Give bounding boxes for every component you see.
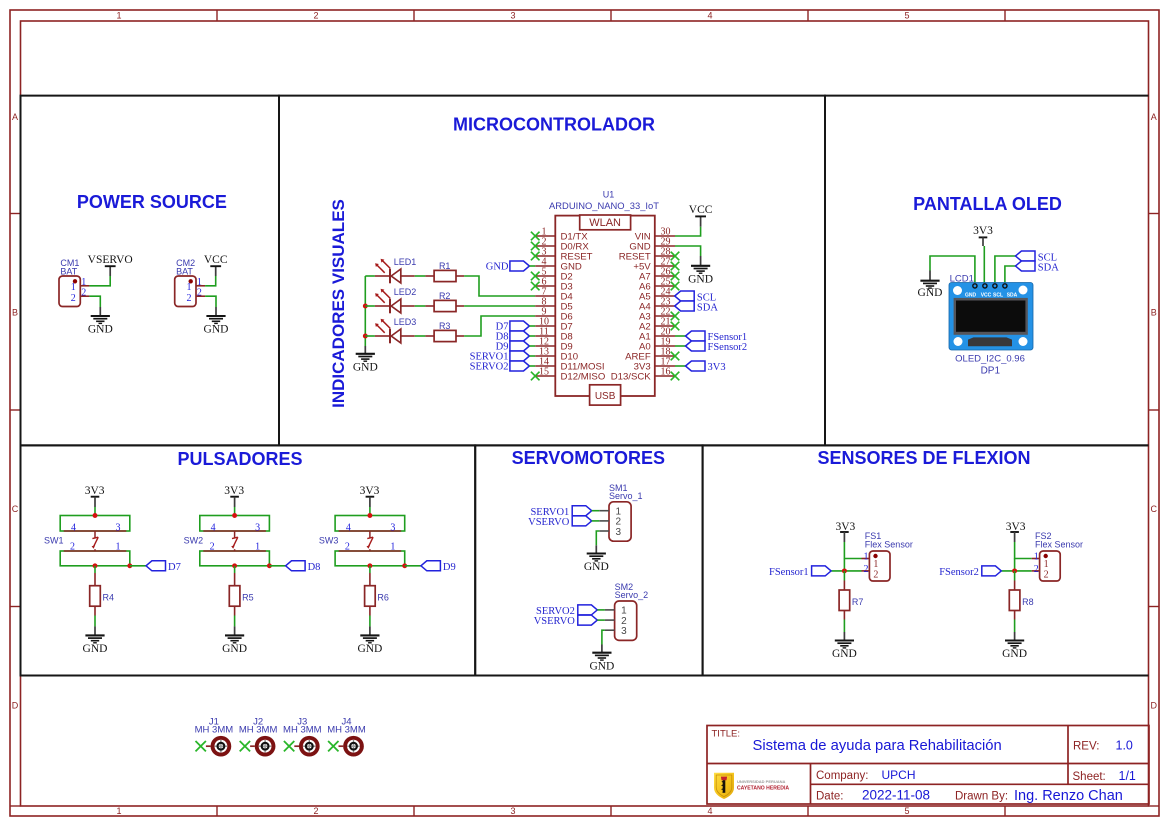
svg-text:Ing. Renzo Chan: Ing. Renzo Chan bbox=[1014, 788, 1123, 804]
svg-text:VSERVO: VSERVO bbox=[88, 254, 133, 266]
net flag FSensor2 bbox=[982, 566, 1002, 576]
net flag SERVO1 pin 13 bbox=[510, 351, 530, 361]
wire bottom loop SW2 bbox=[200, 551, 270, 566]
svg-text:4: 4 bbox=[71, 522, 76, 533]
svg-text:D8: D8 bbox=[308, 562, 321, 573]
pin 25 A6 bbox=[655, 285, 675, 287]
svg-text:FSensor1: FSensor1 bbox=[769, 567, 809, 578]
pin 29 GND bbox=[655, 245, 675, 247]
LED LED1 bbox=[365, 275, 375, 277]
title block row line 2 bbox=[811, 783, 1150, 785]
svg-text:DP1: DP1 bbox=[981, 365, 1001, 376]
svg-text:MH 3MM: MH 3MM bbox=[239, 725, 278, 736]
switch SW3 bbox=[339, 530, 402, 532]
pin 27 +5V bbox=[655, 265, 675, 267]
svg-text:B: B bbox=[12, 308, 18, 318]
svg-text:2022-11-08: 2022-11-08 bbox=[862, 788, 930, 803]
svg-text:D7: D7 bbox=[168, 562, 181, 573]
ground OLED bbox=[929, 271, 931, 281]
pin 4 GND bbox=[535, 265, 555, 267]
pin 3 RESET bbox=[535, 255, 555, 257]
svg-text:OLED_I2C_0.96: OLED_I2C_0.96 bbox=[955, 353, 1025, 364]
svg-text:UPCH: UPCH bbox=[882, 768, 916, 782]
svg-text:1: 1 bbox=[1044, 559, 1049, 570]
LED LED3 bbox=[365, 335, 375, 337]
svg-text:FSensor2: FSensor2 bbox=[939, 567, 979, 578]
wire 3V3 to FS2 pin1 bbox=[1015, 542, 1032, 559]
svg-text:R5: R5 bbox=[242, 593, 254, 603]
svg-text:D13/SCK: D13/SCK bbox=[611, 372, 652, 383]
ground R4 bbox=[94, 626, 96, 635]
resistor R7 bbox=[839, 590, 850, 611]
svg-text:16: 16 bbox=[661, 366, 671, 377]
pin 16 D13/SCK bbox=[655, 375, 675, 377]
wire LED to R2 bbox=[415, 305, 426, 307]
svg-text:GND: GND bbox=[204, 324, 229, 336]
svg-text:POWER SOURCE: POWER SOURCE bbox=[77, 192, 227, 212]
wire CM2 pin1 to VCC bbox=[205, 276, 216, 286]
wire R2 to pin D5 bbox=[464, 305, 535, 307]
svg-text:1: 1 bbox=[116, 11, 121, 21]
svg-text:5: 5 bbox=[904, 11, 909, 21]
pin 2 D0/RX bbox=[535, 245, 555, 247]
svg-text:BAT: BAT bbox=[60, 266, 77, 276]
connector CM2 BAT bbox=[175, 276, 196, 307]
svg-text:GND: GND bbox=[1002, 648, 1027, 660]
pin 5 D2 bbox=[535, 275, 555, 277]
svg-text:1: 1 bbox=[864, 552, 869, 563]
svg-text:R6: R6 bbox=[377, 593, 389, 603]
svg-text:MH 3MM: MH 3MM bbox=[327, 725, 366, 736]
svg-text:1.0: 1.0 bbox=[1116, 739, 1133, 753]
svg-text:2: 2 bbox=[210, 542, 215, 553]
svg-text:C: C bbox=[1150, 504, 1157, 514]
pin 17 3V3 bbox=[655, 365, 675, 367]
wire LED to R1 bbox=[415, 275, 426, 277]
pin 10 D7 bbox=[535, 325, 555, 327]
svg-text:MH 3MM: MH 3MM bbox=[195, 725, 234, 736]
svg-text:MICROCONTROLADOR: MICROCONTROLADOR bbox=[453, 114, 655, 134]
section box SENSORES DE FLEXION bbox=[703, 445, 1149, 675]
pin 15 D12/MISO bbox=[535, 375, 555, 377]
junction bottom center SW1 bbox=[93, 563, 98, 568]
svg-text:SDA: SDA bbox=[1007, 292, 1018, 298]
svg-text:5: 5 bbox=[904, 806, 909, 816]
frame column ticks top/bottom bbox=[216, 10, 218, 21]
svg-text:REV:: REV: bbox=[1073, 741, 1099, 753]
junction rail LED2 bbox=[363, 304, 368, 309]
svg-text:3V3: 3V3 bbox=[360, 485, 380, 497]
OLED display module LCD1 bbox=[949, 283, 1033, 351]
pin 19 A0 bbox=[655, 345, 675, 347]
svg-text:Drawn By:: Drawn By: bbox=[955, 791, 1008, 803]
svg-text:USB: USB bbox=[595, 391, 616, 402]
svg-text:3V3: 3V3 bbox=[973, 225, 993, 237]
svg-text:3: 3 bbox=[621, 626, 627, 637]
pin 28 RESET bbox=[655, 255, 675, 257]
pin 24 A5 bbox=[655, 295, 675, 297]
svg-text:R2: R2 bbox=[439, 291, 451, 301]
svg-text:D: D bbox=[1150, 701, 1157, 711]
net flag VSERVO bbox=[578, 615, 598, 625]
svg-text:3V3: 3V3 bbox=[224, 485, 244, 497]
pin 11 D8 bbox=[535, 335, 555, 337]
resistor R2 bbox=[434, 300, 456, 311]
resistor R6 bbox=[365, 586, 376, 607]
net flag SCL OLED bbox=[995, 256, 1016, 284]
junction 3V3 SW3 bbox=[367, 513, 372, 518]
svg-text:1: 1 bbox=[116, 542, 121, 553]
pin 18 AREF bbox=[655, 355, 675, 357]
svg-text:VSERVO: VSERVO bbox=[534, 616, 576, 627]
wire SW3 to R6 bbox=[369, 566, 371, 573]
svg-text:D9: D9 bbox=[443, 562, 456, 573]
svg-text:3: 3 bbox=[616, 527, 622, 538]
net flag D7 pin 10 bbox=[510, 321, 530, 331]
svg-text:2: 2 bbox=[345, 542, 350, 553]
junction bottom right SW3 bbox=[402, 563, 407, 568]
svg-text:R7: R7 bbox=[852, 597, 864, 607]
svg-text:2: 2 bbox=[864, 564, 869, 575]
svg-text:LED1: LED1 bbox=[394, 257, 417, 267]
wire FS2 to R8 bbox=[1014, 571, 1016, 581]
svg-text:FSensor2: FSensor2 bbox=[708, 342, 748, 353]
svg-text:R4: R4 bbox=[103, 593, 115, 603]
pin 6 D3 bbox=[535, 285, 555, 287]
power flag VSERVO bbox=[109, 266, 111, 276]
junction bottom right SW1 bbox=[127, 563, 132, 568]
pin 9 D6 bbox=[535, 315, 555, 317]
net flag 3V3 pin 17 bbox=[675, 365, 686, 367]
svg-text:B: B bbox=[1151, 308, 1157, 318]
title block logo cell divider bbox=[810, 764, 812, 805]
svg-text:GND: GND bbox=[353, 361, 378, 373]
svg-text:PULSADORES: PULSADORES bbox=[177, 449, 302, 469]
ground CM1 bbox=[99, 307, 101, 316]
pin 21 A2 bbox=[655, 325, 675, 327]
svg-text:MH 3MM: MH 3MM bbox=[283, 725, 322, 736]
svg-text:2: 2 bbox=[313, 806, 318, 816]
junction bottom right SW2 bbox=[267, 563, 272, 568]
ground R8 bbox=[1014, 632, 1016, 641]
net flag VSERVO bbox=[572, 516, 592, 526]
logo UPCH shield bbox=[714, 773, 734, 799]
svg-text:1: 1 bbox=[255, 542, 260, 553]
junction 3V3 SW1 bbox=[93, 513, 98, 518]
pin 26 A7 bbox=[655, 275, 675, 277]
net flag GND pin 4 bbox=[510, 261, 530, 271]
svg-text:SDA: SDA bbox=[1038, 262, 1059, 273]
no-connect X pin 15 bbox=[531, 372, 540, 381]
pin 2 stub CM1 bbox=[80, 295, 89, 297]
svg-text:3: 3 bbox=[510, 11, 515, 21]
wire 3V3 to FS1 pin1 bbox=[844, 542, 861, 559]
svg-text:SENSORES DE FLEXION: SENSORES DE FLEXION bbox=[817, 448, 1030, 468]
connector SM1 Servo_1 bbox=[609, 502, 631, 541]
svg-text:4: 4 bbox=[211, 522, 216, 533]
no-connect X pin 3 bbox=[531, 252, 540, 261]
svg-text:GND: GND bbox=[584, 561, 609, 573]
svg-text:INDICADORES VISUALES: INDICADORES VISUALES bbox=[329, 199, 348, 408]
junction 3V3 SW2 bbox=[232, 513, 237, 518]
no-connect X pin 27 bbox=[671, 262, 680, 271]
svg-text:D12/MISO: D12/MISO bbox=[561, 372, 606, 383]
pin 1 stub CM2 bbox=[196, 285, 205, 287]
ground pin 29 bbox=[675, 246, 701, 256]
title block outline bbox=[707, 726, 1149, 805]
wire LED to R3 bbox=[415, 335, 426, 337]
pin 7 D4 bbox=[535, 295, 555, 297]
svg-text:SERVO2: SERVO2 bbox=[470, 362, 509, 373]
net flag D9 pin 12 bbox=[510, 341, 530, 351]
svg-text:1: 1 bbox=[1034, 552, 1039, 563]
svg-text:3: 3 bbox=[510, 806, 515, 816]
svg-text:SDA: SDA bbox=[697, 302, 718, 313]
wire top loop SW1 bbox=[60, 516, 130, 532]
no-connect X pin 1 bbox=[531, 232, 540, 241]
svg-text:VSERVO: VSERVO bbox=[528, 517, 570, 528]
net flag SERVO1 bbox=[572, 506, 592, 516]
wire FS1 to R7 bbox=[843, 571, 845, 581]
resistor R3 bbox=[434, 330, 456, 341]
wire LED cathode rail bbox=[364, 276, 366, 346]
ground R5 bbox=[234, 626, 236, 635]
svg-text:Sheet:: Sheet: bbox=[1073, 771, 1106, 783]
net flag D8 pin 11 bbox=[510, 331, 530, 341]
section box PANTALLA OLED bbox=[825, 96, 1149, 446]
junction bottom center SW2 bbox=[232, 563, 237, 568]
section box PULSADORES bbox=[21, 445, 476, 675]
svg-text:PANTALLA OLED: PANTALLA OLED bbox=[913, 194, 1062, 214]
junction FS2 bbox=[1012, 568, 1017, 573]
junction FS1 bbox=[842, 568, 847, 573]
svg-text:GND: GND bbox=[222, 643, 247, 655]
wire SW1 to R4 bbox=[94, 566, 96, 573]
net flag FSensor1 bbox=[812, 566, 832, 576]
power flag VCC pin 30 (VIN) bbox=[675, 227, 701, 236]
svg-text:R8: R8 bbox=[1022, 597, 1034, 607]
wire SW2 to R5 bbox=[234, 566, 236, 573]
svg-text:LED2: LED2 bbox=[394, 287, 417, 297]
pin 12 D9 bbox=[535, 345, 555, 347]
svg-text:Flex Sensor: Flex Sensor bbox=[1035, 540, 1083, 550]
wire CM1 pin1 to VSERVO bbox=[89, 276, 110, 286]
net flag SDA pin 23 bbox=[675, 301, 695, 311]
net flag SDA OLED bbox=[1005, 266, 1016, 284]
svg-text:SCL: SCL bbox=[993, 292, 1003, 298]
switch SW2 bbox=[203, 530, 266, 532]
svg-text:3V3: 3V3 bbox=[708, 362, 726, 373]
wire SM1 pin3 to GND bbox=[596, 531, 599, 545]
svg-text:Company:: Company: bbox=[816, 770, 868, 782]
svg-text:SW3: SW3 bbox=[319, 536, 339, 546]
pin 13 D10 bbox=[535, 355, 555, 357]
ground SM2 bbox=[601, 645, 603, 653]
svg-text:R3: R3 bbox=[439, 321, 451, 331]
wire to net flag D9 bbox=[405, 565, 421, 567]
wire CM2 pin2 to GND bbox=[205, 296, 216, 307]
pin 1 D1/TX bbox=[535, 235, 555, 237]
ground SM1 bbox=[595, 545, 597, 553]
ground LED rail bbox=[364, 346, 366, 354]
svg-text:1: 1 bbox=[873, 559, 878, 570]
no-connect X pin 28 bbox=[671, 252, 680, 261]
svg-text:Flex Sensor: Flex Sensor bbox=[865, 540, 913, 550]
wire to net flag D8 bbox=[269, 565, 285, 567]
net flag SCL pin 24 bbox=[675, 291, 695, 301]
svg-text:2: 2 bbox=[313, 11, 318, 21]
svg-text:BAT: BAT bbox=[176, 266, 193, 276]
connector FS1 Flex Sensor bbox=[869, 551, 890, 581]
svg-text:GND: GND bbox=[965, 292, 977, 298]
net flag FSensor1 pin 20 bbox=[675, 335, 686, 337]
svg-text:ARDUINO_NANO_33_IoT: ARDUINO_NANO_33_IoT bbox=[549, 200, 659, 211]
svg-text:2: 2 bbox=[70, 542, 75, 553]
pin 22 A3 bbox=[655, 315, 675, 317]
svg-text:GND: GND bbox=[83, 643, 108, 655]
wire SM2 pin3 to GND bbox=[602, 630, 605, 644]
svg-text:GND: GND bbox=[88, 324, 113, 336]
junction bottom center SW3 bbox=[367, 563, 372, 568]
svg-text:1: 1 bbox=[390, 542, 395, 553]
svg-text:2: 2 bbox=[1034, 564, 1039, 575]
resistor R8 bbox=[1009, 590, 1020, 611]
svg-text:SW1: SW1 bbox=[44, 536, 64, 546]
switch SW1 bbox=[64, 530, 127, 532]
section box POWER SOURCE bbox=[21, 96, 280, 446]
svg-text:2: 2 bbox=[1044, 569, 1049, 580]
svg-text:TITLE:: TITLE: bbox=[712, 729, 741, 740]
resistor R1 bbox=[434, 270, 456, 281]
svg-text:GND: GND bbox=[918, 287, 943, 299]
svg-text:Sistema de ayuda para Rehabili: Sistema de ayuda para Rehabilitación bbox=[753, 738, 1002, 754]
svg-text:1: 1 bbox=[116, 806, 121, 816]
svg-text:C: C bbox=[12, 504, 19, 514]
resistor R4 bbox=[90, 586, 101, 607]
power flag VCC bbox=[215, 266, 217, 276]
svg-text:GND: GND bbox=[688, 273, 713, 285]
no-connect X pin 25 bbox=[671, 282, 680, 291]
svg-text:Servo_2: Servo_2 bbox=[615, 590, 649, 600]
svg-text:U1: U1 bbox=[603, 189, 615, 199]
no-connect X pin 18 bbox=[671, 352, 680, 361]
no-connect X pin 2 bbox=[531, 242, 540, 251]
pin 8 D5 bbox=[535, 305, 555, 307]
pin 2 stub CM2 bbox=[196, 295, 205, 297]
svg-text:VCC: VCC bbox=[981, 292, 992, 298]
svg-text:2: 2 bbox=[71, 293, 76, 304]
wire CM1 pin2 to GND bbox=[89, 296, 100, 307]
svg-text:2: 2 bbox=[873, 569, 878, 580]
svg-text:D: D bbox=[12, 701, 19, 711]
section box MICROCONTROLADOR bbox=[279, 96, 825, 446]
wire 3V3 to VCC pin bbox=[983, 246, 985, 284]
wire to net flag D7 bbox=[130, 565, 146, 567]
svg-text:R1: R1 bbox=[439, 261, 451, 271]
svg-text:CAYETANO HEREDIA: CAYETANO HEREDIA bbox=[737, 786, 789, 792]
net flag SERVO2 bbox=[578, 605, 598, 615]
LED LED2 bbox=[365, 305, 375, 307]
svg-text:A: A bbox=[12, 112, 18, 122]
pin 30 VIN bbox=[655, 235, 675, 237]
svg-text:Servo_1: Servo_1 bbox=[609, 491, 643, 501]
no-connect X pin 22 bbox=[671, 312, 680, 321]
wire bottom loop SW3 bbox=[335, 551, 405, 566]
title block right column divider bbox=[1067, 726, 1069, 785]
USB sub-box bbox=[590, 385, 621, 405]
no-connect X pin 26 bbox=[671, 272, 680, 281]
frame bottom corner ticks bbox=[10, 805, 21, 807]
svg-text:SERVOMOTORES: SERVOMOTORES bbox=[512, 448, 665, 468]
title block row line 1 bbox=[707, 763, 1149, 765]
svg-text:4: 4 bbox=[707, 806, 712, 816]
wire bottom loop SW1 bbox=[60, 551, 130, 566]
svg-text:1: 1 bbox=[71, 282, 76, 293]
svg-text:GND: GND bbox=[486, 262, 509, 273]
svg-text:Date:: Date: bbox=[816, 791, 844, 803]
resistor R5 bbox=[229, 586, 240, 607]
pin 23 A4 bbox=[655, 305, 675, 307]
svg-text:2: 2 bbox=[187, 293, 192, 304]
svg-text:1/1: 1/1 bbox=[1119, 769, 1136, 783]
svg-text:4: 4 bbox=[707, 11, 712, 21]
ground R7 bbox=[843, 632, 845, 641]
wire R3 to pin D6 bbox=[464, 316, 535, 336]
pin 20 A1 bbox=[655, 335, 675, 337]
net flag D9 bbox=[421, 561, 441, 571]
net flag D8 bbox=[286, 561, 306, 571]
no-connect X pin 16 bbox=[671, 372, 680, 381]
connector CM1 BAT bbox=[59, 276, 80, 307]
svg-text:3: 3 bbox=[116, 522, 121, 533]
no-connect X pin 5 bbox=[531, 272, 540, 281]
connector FS2 Flex Sensor bbox=[1040, 551, 1061, 581]
svg-text:3V3: 3V3 bbox=[85, 485, 105, 497]
svg-text:UNIVERSIDAD PERUANA: UNIVERSIDAD PERUANA bbox=[737, 779, 786, 784]
svg-text:GND: GND bbox=[832, 648, 857, 660]
junction rail LED3 bbox=[363, 334, 368, 339]
svg-text:3: 3 bbox=[390, 522, 395, 533]
svg-text:GND: GND bbox=[357, 643, 382, 655]
wire top loop SW2 bbox=[200, 516, 270, 532]
svg-text:VCC: VCC bbox=[204, 254, 228, 266]
svg-text:SW2: SW2 bbox=[184, 536, 204, 546]
no-connect X pin 21 bbox=[671, 322, 680, 331]
net flag D7 bbox=[146, 561, 166, 571]
svg-text:3: 3 bbox=[255, 522, 260, 533]
ground R6 bbox=[369, 626, 371, 635]
svg-text:GND: GND bbox=[589, 660, 614, 672]
svg-text:1: 1 bbox=[187, 282, 192, 293]
op-amp U1 body ARDUINO_NANO_33_IoT bbox=[555, 216, 655, 396]
svg-text:LED3: LED3 bbox=[394, 317, 417, 327]
net flag SERVO2 pin 14 bbox=[510, 361, 530, 371]
wire net FSensor1 to FS1 pin2 bbox=[831, 570, 861, 572]
wire OLED GND pin to ground bbox=[930, 256, 975, 284]
svg-text:4: 4 bbox=[346, 522, 351, 533]
wire R1 to pin D4 bbox=[464, 276, 535, 296]
svg-text:A: A bbox=[1151, 112, 1157, 122]
section box SERVOMOTORES bbox=[475, 445, 702, 675]
wire net FSensor2 to FS2 pin2 bbox=[1001, 570, 1031, 572]
net flag FSensor2 pin 19 bbox=[675, 345, 686, 347]
pin 1 stub CM1 bbox=[80, 285, 89, 287]
wire top loop SW3 bbox=[335, 516, 405, 532]
WLAN sub-box bbox=[580, 215, 631, 230]
ground CM2 bbox=[215, 307, 217, 316]
connector SM2 Servo_2 bbox=[615, 601, 637, 640]
svg-text:VCC: VCC bbox=[689, 204, 713, 216]
